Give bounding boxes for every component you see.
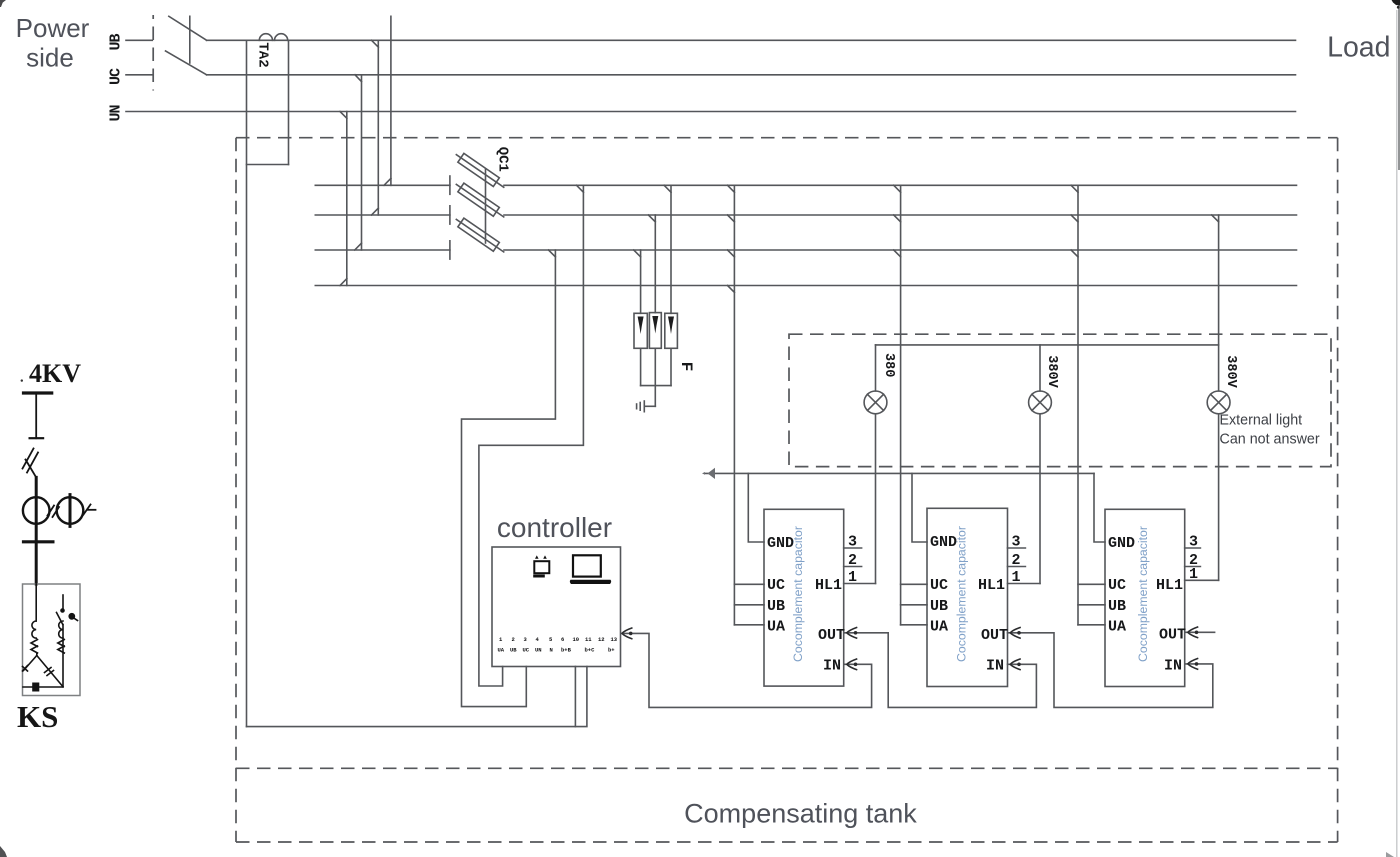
svg-text:11: 11 xyxy=(585,636,592,643)
svg-text:External light: External light xyxy=(1220,413,1303,429)
svg-text:6: 6 xyxy=(561,636,564,643)
svg-text:UC: UC xyxy=(930,577,948,594)
svg-text:4KV: 4KV xyxy=(29,359,81,388)
svg-text:Power: Power xyxy=(16,13,90,43)
svg-text:UB: UB xyxy=(108,34,125,51)
svg-text:IN: IN xyxy=(986,658,1004,675)
svg-text:UA: UA xyxy=(767,619,785,636)
svg-text:12: 12 xyxy=(598,636,605,643)
svg-text:OUT: OUT xyxy=(1159,627,1186,644)
svg-text:Cocomplement capacitor: Cocomplement capacitor xyxy=(1136,526,1150,662)
svg-text:UN: UN xyxy=(108,105,125,122)
svg-text:HL1: HL1 xyxy=(1156,577,1183,594)
svg-text:UA: UA xyxy=(498,647,505,654)
svg-text:380V: 380V xyxy=(1223,355,1238,388)
svg-text:Compensating tank: Compensating tank xyxy=(684,799,917,829)
svg-text:1: 1 xyxy=(1189,566,1198,583)
svg-text:UC: UC xyxy=(523,647,530,654)
svg-text:3: 3 xyxy=(848,534,857,551)
svg-text:OUT: OUT xyxy=(981,627,1008,644)
svg-text:UC: UC xyxy=(108,68,125,85)
svg-text:UA: UA xyxy=(1108,619,1126,636)
svg-text:10: 10 xyxy=(573,636,580,643)
svg-text:UB: UB xyxy=(767,598,785,615)
svg-text:N: N xyxy=(550,647,553,654)
svg-text:13: 13 xyxy=(611,636,618,643)
svg-text:Can not answer: Can not answer xyxy=(1220,432,1320,448)
svg-text:OUT: OUT xyxy=(818,627,845,644)
svg-text:b+C: b+C xyxy=(585,647,596,654)
svg-text:UA: UA xyxy=(930,619,948,636)
svg-text:GND: GND xyxy=(767,535,794,552)
svg-text:b+: b+ xyxy=(608,647,615,654)
svg-text:380V: 380V xyxy=(1044,355,1059,388)
svg-text:1: 1 xyxy=(1012,569,1021,586)
svg-text:3: 3 xyxy=(1012,534,1021,551)
svg-text:HL1: HL1 xyxy=(815,577,842,594)
svg-text:Cocomplement capacitor: Cocomplement capacitor xyxy=(791,526,805,662)
svg-text:380: 380 xyxy=(881,353,896,377)
svg-text:IN: IN xyxy=(1164,658,1182,675)
svg-text:Load: Load xyxy=(1327,31,1390,63)
svg-text:1: 1 xyxy=(848,569,857,586)
svg-text:UC: UC xyxy=(1108,577,1126,594)
svg-text:IN: IN xyxy=(823,658,841,675)
svg-text:2: 2 xyxy=(1012,552,1021,569)
svg-text:UN: UN xyxy=(535,647,542,654)
svg-text:F: F xyxy=(677,362,695,372)
svg-text:b+B: b+B xyxy=(561,647,572,654)
svg-text:UC: UC xyxy=(767,577,785,594)
svg-text:GND: GND xyxy=(930,534,957,551)
svg-text:2: 2 xyxy=(848,552,857,569)
svg-text:side: side xyxy=(26,43,74,73)
svg-text:HL1: HL1 xyxy=(978,577,1005,594)
svg-text:3: 3 xyxy=(1189,534,1198,551)
svg-text:2: 2 xyxy=(512,636,515,643)
svg-text:UB: UB xyxy=(1108,598,1126,615)
svg-text:UB: UB xyxy=(930,598,948,615)
svg-text:controller: controller xyxy=(497,512,612,543)
svg-text:KS: KS xyxy=(17,699,58,734)
svg-text:QC1: QC1 xyxy=(495,147,511,172)
svg-text:Cocomplement capacitor: Cocomplement capacitor xyxy=(955,526,969,662)
svg-text:TA2: TA2 xyxy=(255,42,271,67)
svg-text:GND: GND xyxy=(1108,535,1135,552)
svg-text:UB: UB xyxy=(510,647,517,654)
